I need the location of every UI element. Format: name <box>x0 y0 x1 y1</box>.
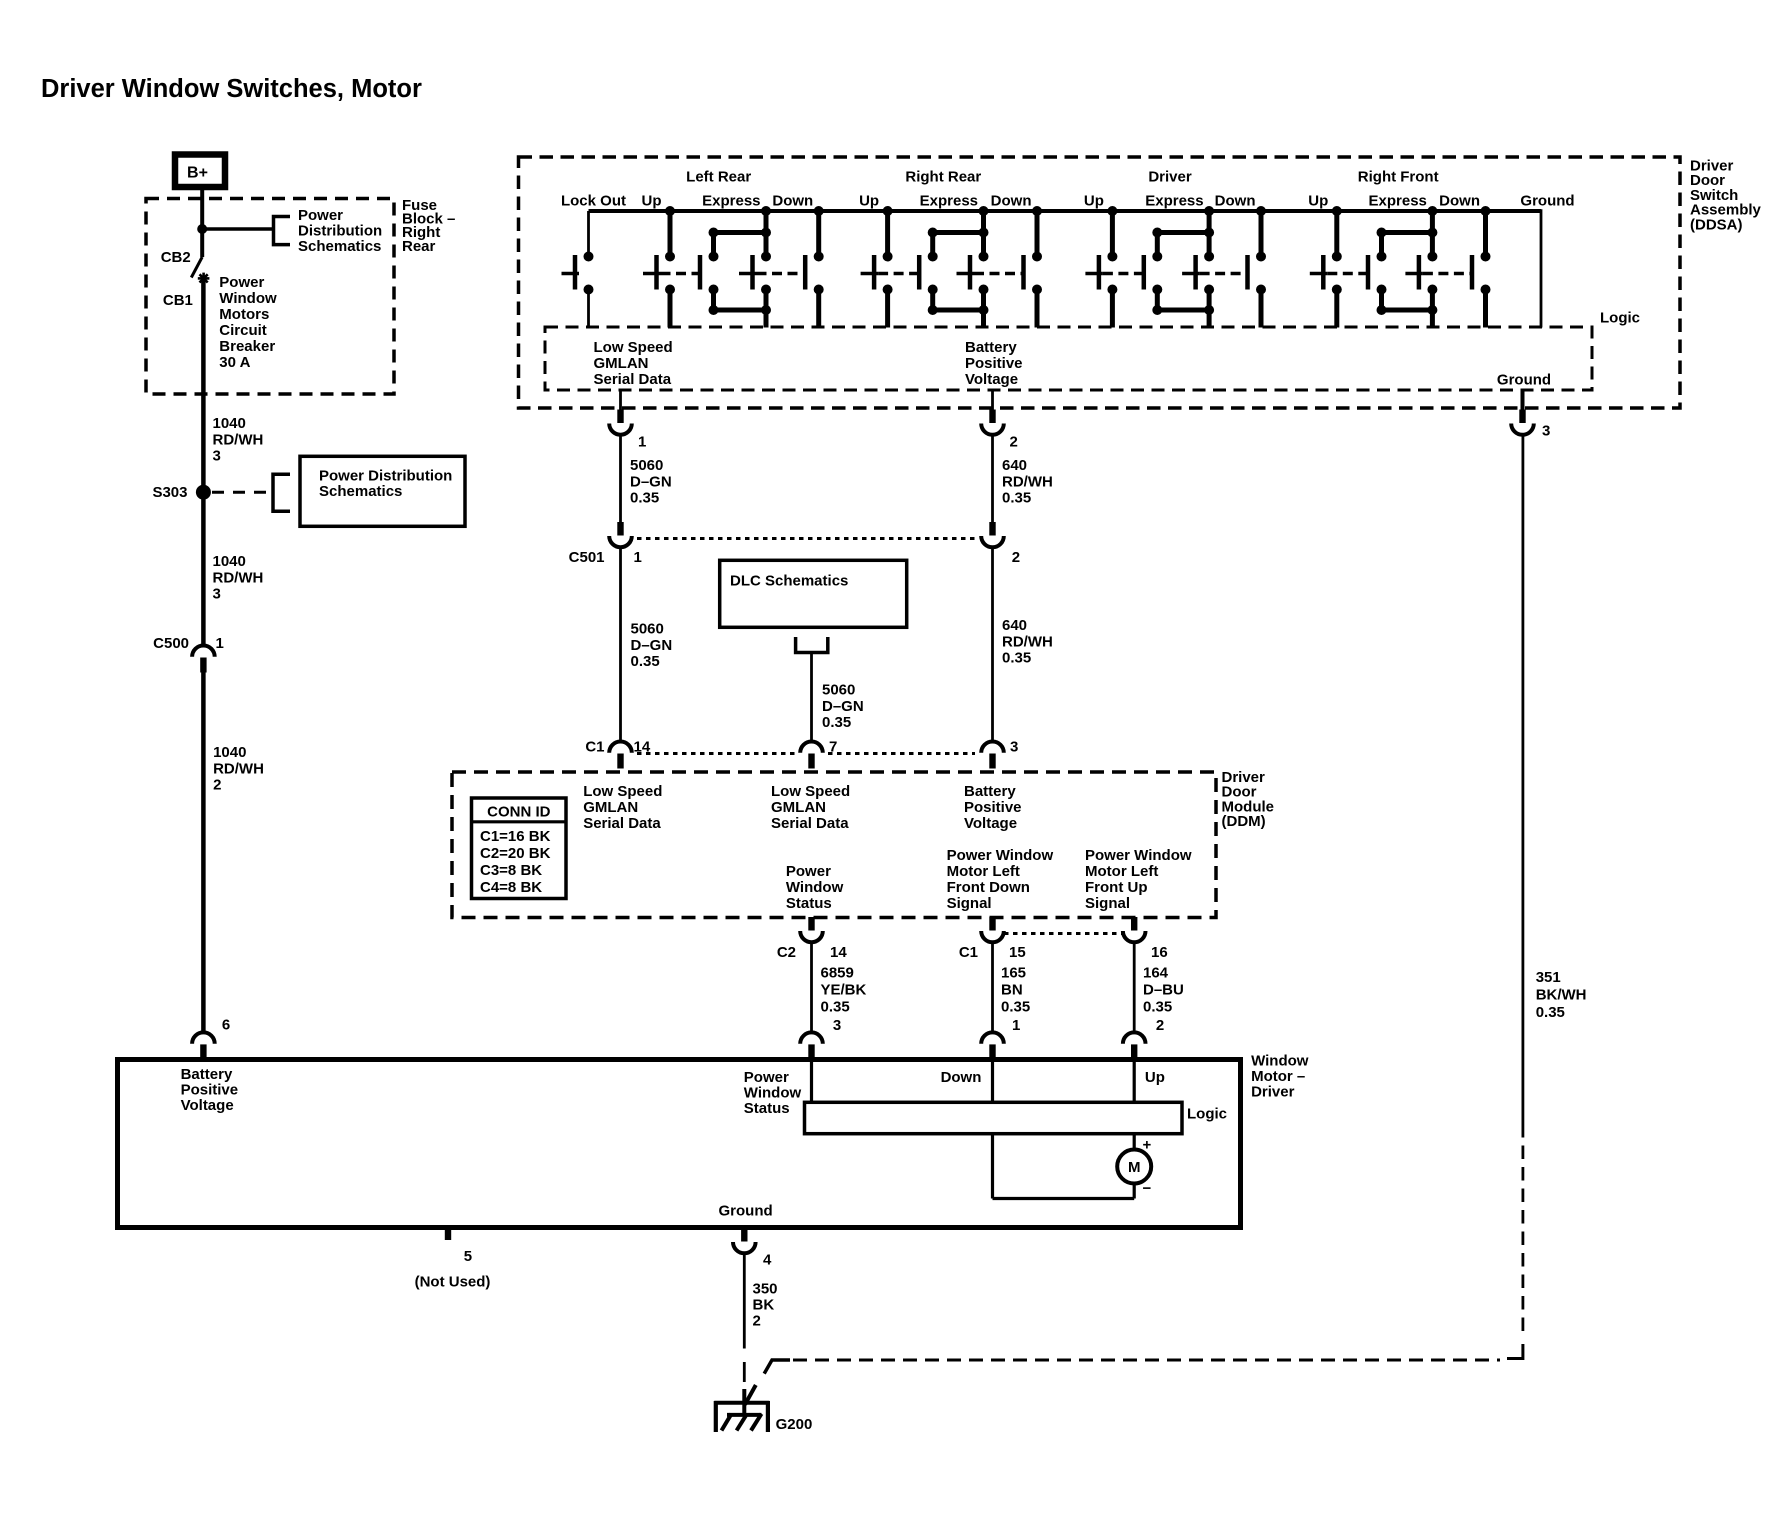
svg-text:0.35: 0.35 <box>631 653 660 670</box>
svg-text:6: 6 <box>222 1017 230 1034</box>
svg-text:CB2: CB2 <box>161 249 191 266</box>
svg-text:15: 15 <box>1009 944 1026 961</box>
svg-text:Up: Up <box>1308 193 1328 210</box>
svg-text:C501: C501 <box>569 549 605 566</box>
svg-text:Battery: Battery <box>965 339 1017 356</box>
svg-text:350: 350 <box>753 1281 778 1298</box>
svg-text:(DDM): (DDM) <box>1222 813 1266 830</box>
svg-text:Signal: Signal <box>947 895 992 912</box>
svg-text:3: 3 <box>1542 423 1550 440</box>
svg-text:Logic: Logic <box>1187 1105 1227 1122</box>
svg-text:Rear: Rear <box>402 238 436 255</box>
svg-text:640: 640 <box>1002 457 1027 474</box>
svg-text:1: 1 <box>634 549 642 566</box>
svg-text:Window: Window <box>744 1085 802 1102</box>
svg-text:BN: BN <box>1001 982 1023 999</box>
svg-text:BK: BK <box>753 1297 775 1314</box>
svg-text:1: 1 <box>216 635 224 652</box>
svg-text:D–GN: D–GN <box>822 698 864 715</box>
svg-text:Serial Data: Serial Data <box>771 815 849 832</box>
svg-text:Motors: Motors <box>219 306 269 323</box>
svg-text:2: 2 <box>1156 1017 1164 1034</box>
svg-text:Up: Up <box>1145 1069 1165 1086</box>
svg-text:2: 2 <box>1010 434 1018 451</box>
svg-text:CONN ID: CONN ID <box>487 804 551 821</box>
svg-text:3: 3 <box>1010 739 1018 756</box>
svg-text:C3=8 BK: C3=8 BK <box>480 862 542 879</box>
svg-text:3: 3 <box>213 448 221 465</box>
svg-text:6859: 6859 <box>821 965 854 982</box>
svg-text:Front Down: Front Down <box>947 879 1030 896</box>
svg-text:Power Window: Power Window <box>1085 847 1192 864</box>
svg-text:RD/WH: RD/WH <box>213 569 264 586</box>
svg-text:GMLAN: GMLAN <box>583 799 638 816</box>
svg-text:Voltage: Voltage <box>965 371 1018 388</box>
svg-text:1: 1 <box>638 434 646 451</box>
svg-text:C1: C1 <box>585 739 604 756</box>
svg-text:0.35: 0.35 <box>630 490 659 507</box>
svg-text:Power: Power <box>219 274 264 291</box>
svg-text:Down: Down <box>1439 193 1480 210</box>
svg-text:4: 4 <box>763 1252 772 1269</box>
svg-text:Window: Window <box>786 879 844 896</box>
svg-text:165: 165 <box>1001 965 1026 982</box>
svg-text:C500: C500 <box>153 635 189 652</box>
svg-text:1040: 1040 <box>213 553 246 570</box>
svg-text:16: 16 <box>1151 944 1168 961</box>
svg-text:0.35: 0.35 <box>1536 1004 1565 1021</box>
svg-text:Express: Express <box>702 193 760 210</box>
svg-text:DLC Schematics: DLC Schematics <box>730 573 848 590</box>
svg-text:C1: C1 <box>959 944 978 961</box>
svg-text:Schematics: Schematics <box>298 238 381 255</box>
svg-text:Down: Down <box>772 193 813 210</box>
svg-text:Down: Down <box>1215 193 1256 210</box>
svg-text:Express: Express <box>1145 193 1203 210</box>
svg-text:14: 14 <box>830 944 847 961</box>
svg-text:Battery: Battery <box>964 783 1016 800</box>
svg-text:Power: Power <box>298 207 343 224</box>
svg-text:Up: Up <box>1084 193 1104 210</box>
svg-text:D–GN: D–GN <box>631 637 673 654</box>
svg-text:+: + <box>1143 1137 1152 1154</box>
svg-text:C2: C2 <box>777 944 796 961</box>
svg-text:Driver: Driver <box>1148 169 1192 186</box>
svg-text:640: 640 <box>1002 617 1027 634</box>
svg-text:0.35: 0.35 <box>1001 999 1030 1016</box>
svg-text:Schematics: Schematics <box>319 483 402 500</box>
svg-text:7: 7 <box>829 739 837 756</box>
svg-text:351: 351 <box>1536 969 1561 986</box>
svg-text:Ground: Ground <box>719 1203 773 1220</box>
svg-text:BK/WH: BK/WH <box>1536 987 1587 1004</box>
svg-text:S303: S303 <box>152 484 187 501</box>
svg-text:0.35: 0.35 <box>1002 490 1031 507</box>
svg-text:Front Up: Front Up <box>1085 879 1147 896</box>
svg-text:C4=8 BK: C4=8 BK <box>480 879 542 896</box>
svg-text:(DDSA): (DDSA) <box>1690 216 1743 233</box>
svg-text:RD/WH: RD/WH <box>1002 473 1053 490</box>
svg-text:Power Window: Power Window <box>947 847 1054 864</box>
svg-text:1: 1 <box>1012 1017 1020 1034</box>
svg-text:Low Speed: Low Speed <box>594 339 673 356</box>
svg-text:3: 3 <box>833 1017 841 1034</box>
svg-text:Ground: Ground <box>1497 372 1551 389</box>
svg-text:Down: Down <box>991 193 1032 210</box>
svg-text:164: 164 <box>1143 965 1169 982</box>
svg-text:C2=20 BK: C2=20 BK <box>480 845 551 862</box>
svg-text:0.35: 0.35 <box>1143 999 1172 1016</box>
svg-text:Window: Window <box>219 290 277 307</box>
svg-text:G200: G200 <box>776 1416 813 1433</box>
svg-text:2: 2 <box>213 777 221 794</box>
svg-text:2: 2 <box>1012 549 1020 566</box>
svg-text:Up: Up <box>642 193 662 210</box>
svg-text:Positive: Positive <box>965 355 1023 372</box>
svg-text:Express: Express <box>920 193 978 210</box>
svg-text:Power Distribution: Power Distribution <box>319 468 452 485</box>
svg-text:M: M <box>1128 1159 1141 1176</box>
svg-text:Status: Status <box>744 1100 790 1117</box>
svg-text:−: − <box>1143 1180 1152 1197</box>
svg-text:Serial Data: Serial Data <box>583 815 661 832</box>
svg-text:D–BU: D–BU <box>1143 982 1184 999</box>
svg-text:(Not Used): (Not Used) <box>415 1274 491 1291</box>
svg-text:RD/WH: RD/WH <box>213 760 264 777</box>
svg-text:5060: 5060 <box>630 457 663 474</box>
svg-text:5060: 5060 <box>631 621 664 638</box>
svg-text:Down: Down <box>941 1069 982 1086</box>
svg-text:5060: 5060 <box>822 682 855 699</box>
svg-text:GMLAN: GMLAN <box>594 355 649 372</box>
svg-text:B+: B+ <box>187 165 208 182</box>
svg-text:Left Rear: Left Rear <box>686 169 751 186</box>
svg-text:Ground: Ground <box>1520 193 1574 210</box>
svg-text:Power: Power <box>744 1069 789 1086</box>
svg-text:Voltage: Voltage <box>964 815 1017 832</box>
svg-text:3: 3 <box>213 586 221 603</box>
svg-text:Signal: Signal <box>1085 895 1130 912</box>
svg-text:Express: Express <box>1369 193 1427 210</box>
svg-text:CB1: CB1 <box>163 292 193 309</box>
svg-text:C1=16 BK: C1=16 BK <box>480 828 551 845</box>
svg-text:GMLAN: GMLAN <box>771 799 826 816</box>
svg-text:14: 14 <box>634 739 651 756</box>
svg-text:Low Speed: Low Speed <box>771 783 850 800</box>
svg-text:Motor Left: Motor Left <box>947 863 1020 880</box>
svg-text:0.35: 0.35 <box>821 999 850 1016</box>
svg-text:Right Front: Right Front <box>1358 169 1439 186</box>
svg-text:30 A: 30 A <box>219 354 250 371</box>
svg-text:Lock Out: Lock Out <box>561 193 626 210</box>
svg-text:Driver: Driver <box>1251 1083 1295 1100</box>
svg-text:RD/WH: RD/WH <box>1002 633 1053 650</box>
svg-text:Status: Status <box>786 895 832 912</box>
svg-text:Right Rear: Right Rear <box>905 169 981 186</box>
svg-text:Low Speed: Low Speed <box>583 783 662 800</box>
svg-text:Distribution: Distribution <box>298 223 382 240</box>
svg-text:0.35: 0.35 <box>1002 650 1031 667</box>
svg-text:Up: Up <box>859 193 879 210</box>
svg-text:0.35: 0.35 <box>822 714 851 731</box>
svg-text:YE/BK: YE/BK <box>821 982 867 999</box>
svg-text:Logic: Logic <box>1600 310 1640 327</box>
svg-text:1040: 1040 <box>213 415 246 432</box>
svg-text:D–GN: D–GN <box>630 473 672 490</box>
svg-text:Battery: Battery <box>181 1066 233 1083</box>
svg-text:2: 2 <box>753 1313 761 1330</box>
svg-text:1040: 1040 <box>213 744 246 761</box>
svg-text:Voltage: Voltage <box>181 1097 234 1114</box>
svg-text:Positive: Positive <box>964 799 1022 816</box>
svg-text:Driver Window Switches, Motor: Driver Window Switches, Motor <box>41 75 422 103</box>
svg-text:5: 5 <box>464 1248 472 1265</box>
svg-text:Positive: Positive <box>181 1082 239 1099</box>
svg-text:Motor Left: Motor Left <box>1085 863 1158 880</box>
svg-text:Breaker: Breaker <box>219 338 275 355</box>
svg-text:RD/WH: RD/WH <box>213 431 264 448</box>
svg-text:Serial Data: Serial Data <box>594 371 672 388</box>
svg-text:Power: Power <box>786 863 831 880</box>
svg-text:Circuit: Circuit <box>219 322 267 339</box>
